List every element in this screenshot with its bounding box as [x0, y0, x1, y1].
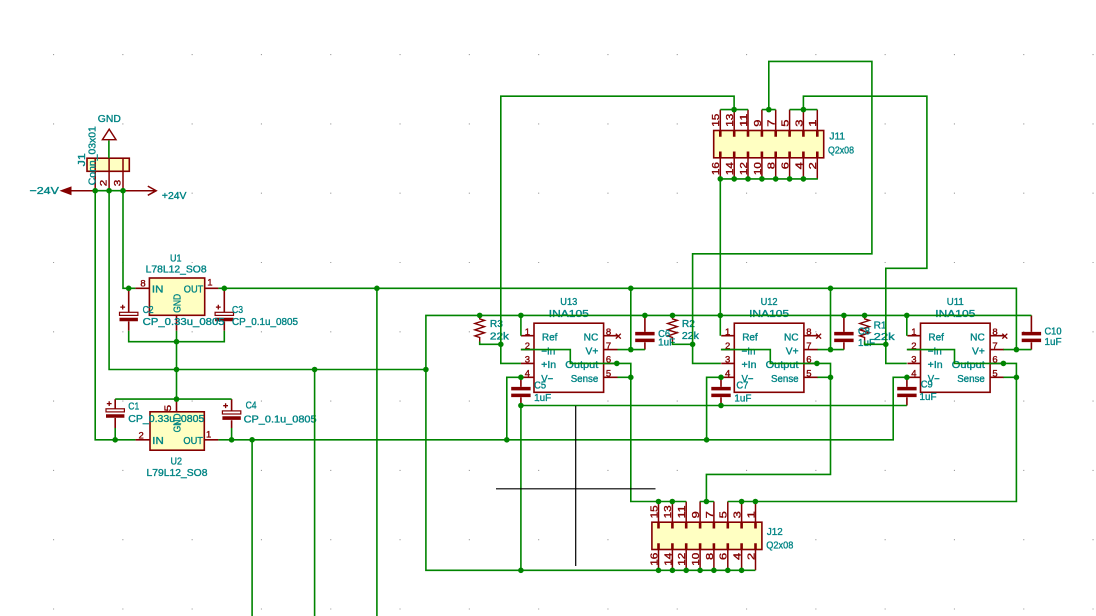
svg-text:Ref: Ref — [742, 333, 758, 344]
svg-text:+In: +In — [742, 360, 757, 371]
svg-text:U1: U1 — [170, 253, 182, 264]
svg-text:INA105: INA105 — [935, 309, 976, 320]
svg-text:10: 10 — [691, 552, 702, 566]
svg-text:7: 7 — [767, 119, 778, 127]
svg-text:C3: C3 — [232, 305, 243, 316]
svg-text:CP_0.33u_0805: CP_0.33u_0805 — [143, 317, 225, 328]
svg-text:−In: −In — [928, 346, 942, 357]
svg-text:C8: C8 — [858, 326, 870, 337]
svg-text:9: 9 — [691, 511, 702, 519]
svg-text:Sense: Sense — [957, 374, 985, 385]
svg-text:11: 11 — [739, 113, 750, 127]
svg-text:1: 1 — [911, 327, 916, 338]
svg-text:1uF: 1uF — [534, 393, 551, 404]
svg-text:15: 15 — [649, 505, 660, 519]
svg-text:CP_0.1u_0805: CP_0.1u_0805 — [232, 317, 298, 328]
svg-text:1: 1 — [525, 327, 530, 338]
svg-text:U12: U12 — [761, 297, 778, 308]
svg-text:1uF: 1uF — [1045, 337, 1062, 348]
svg-text:2: 2 — [746, 552, 757, 560]
svg-text:8: 8 — [806, 327, 811, 338]
svg-text:OUT: OUT — [183, 436, 203, 447]
svg-text:NC: NC — [584, 333, 599, 344]
svg-text:1: 1 — [206, 430, 211, 441]
svg-text:L78L12_SO8: L78L12_SO8 — [146, 264, 207, 275]
svg-text:4: 4 — [911, 368, 916, 379]
svg-text:8: 8 — [705, 552, 716, 560]
svg-text:3: 3 — [733, 511, 744, 519]
svg-text:1uF: 1uF — [920, 392, 937, 403]
svg-text:8: 8 — [140, 279, 145, 290]
svg-text:3: 3 — [911, 355, 916, 366]
svg-text:7: 7 — [806, 341, 811, 352]
svg-text:L79L12_SO8: L79L12_SO8 — [147, 468, 208, 479]
svg-text:C1: C1 — [128, 402, 139, 413]
svg-text:5: 5 — [780, 119, 791, 127]
svg-text:3: 3 — [794, 119, 805, 127]
svg-text:4: 4 — [525, 368, 530, 379]
svg-text:3: 3 — [725, 355, 730, 366]
svg-text:Ref: Ref — [928, 333, 944, 344]
svg-text:1: 1 — [725, 327, 730, 338]
svg-text:22k: 22k — [490, 331, 510, 342]
svg-text:5: 5 — [719, 511, 730, 519]
svg-text:−In: −In — [541, 346, 555, 357]
svg-text:13: 13 — [663, 505, 674, 519]
svg-text:V−: V− — [541, 374, 553, 385]
svg-text:CP_0.1u_0805: CP_0.1u_0805 — [244, 415, 317, 426]
svg-text:C4: C4 — [246, 401, 257, 412]
svg-text:INA105: INA105 — [749, 309, 790, 320]
svg-text:J1: J1 — [77, 153, 88, 167]
svg-text:6: 6 — [780, 162, 791, 170]
svg-text:2: 2 — [139, 430, 144, 441]
svg-text:5: 5 — [806, 368, 811, 379]
svg-text:15: 15 — [711, 113, 722, 127]
svg-text:Q2x08: Q2x08 — [766, 539, 793, 551]
svg-text:Sense: Sense — [771, 374, 799, 385]
svg-text:GND: GND — [98, 114, 121, 125]
svg-text:16: 16 — [711, 162, 722, 176]
svg-text:8: 8 — [992, 327, 997, 338]
svg-text:Q2x08: Q2x08 — [828, 145, 854, 157]
svg-text:J12: J12 — [767, 526, 783, 538]
svg-text:7: 7 — [606, 341, 611, 352]
svg-text:3: 3 — [113, 180, 124, 187]
svg-text:NC: NC — [784, 333, 799, 344]
svg-text:OUT: OUT — [184, 284, 204, 295]
svg-text:16: 16 — [649, 552, 660, 566]
svg-text:13: 13 — [725, 113, 736, 127]
svg-text:Conn_03x01: Conn_03x01 — [88, 126, 99, 185]
svg-text:GND: GND — [173, 294, 184, 313]
svg-text:J11: J11 — [829, 130, 845, 142]
svg-text:5: 5 — [606, 368, 611, 379]
svg-text:12: 12 — [739, 162, 750, 176]
svg-text:5: 5 — [992, 368, 997, 379]
svg-text:V−: V− — [928, 374, 940, 385]
svg-text:C2: C2 — [143, 305, 154, 316]
svg-text:8: 8 — [767, 162, 778, 170]
svg-text:22k: 22k — [682, 331, 700, 342]
svg-text:1uF: 1uF — [734, 394, 751, 405]
svg-text:C10: C10 — [1045, 327, 1062, 338]
svg-text:5: 5 — [163, 405, 174, 412]
svg-text:INA105: INA105 — [549, 309, 590, 320]
svg-text:CP_0.33u_0805: CP_0.33u_0805 — [128, 414, 204, 425]
svg-text:9: 9 — [753, 119, 764, 127]
svg-text:U13: U13 — [560, 297, 577, 308]
svg-text:IN: IN — [152, 284, 164, 295]
svg-text:−24V: −24V — [30, 186, 60, 197]
svg-text:U11: U11 — [947, 297, 964, 308]
svg-text:+In: +In — [928, 360, 943, 371]
svg-text:12: 12 — [677, 552, 688, 566]
svg-text:4: 4 — [794, 162, 805, 170]
svg-text:1: 1 — [207, 278, 212, 289]
svg-text:IN: IN — [152, 436, 164, 447]
svg-text:2: 2 — [99, 180, 110, 187]
svg-text:14: 14 — [725, 162, 736, 176]
svg-text:+24V: +24V — [162, 191, 187, 202]
svg-text:4: 4 — [733, 552, 744, 560]
svg-text:+In: +In — [541, 360, 556, 371]
svg-text:10: 10 — [753, 162, 764, 176]
svg-text:NC: NC — [970, 333, 985, 344]
svg-text:V−: V− — [742, 374, 754, 385]
svg-text:8: 8 — [606, 327, 611, 338]
svg-text:1: 1 — [746, 511, 757, 519]
svg-text:V+: V+ — [972, 346, 985, 357]
svg-text:Ref: Ref — [542, 333, 558, 344]
svg-text:11: 11 — [677, 505, 688, 519]
svg-text:2: 2 — [808, 162, 819, 170]
svg-text:7: 7 — [992, 341, 997, 352]
svg-text:6: 6 — [719, 552, 730, 560]
svg-text:1: 1 — [808, 119, 819, 127]
svg-text:14: 14 — [663, 552, 674, 566]
svg-text:−In: −In — [742, 346, 756, 357]
svg-text:Output: Output — [952, 360, 985, 371]
svg-text:Sense: Sense — [571, 374, 599, 385]
svg-text:4: 4 — [725, 368, 730, 379]
svg-text:22k: 22k — [874, 332, 896, 343]
svg-text:3: 3 — [525, 355, 530, 366]
svg-text:V+: V+ — [586, 346, 599, 357]
svg-text:7: 7 — [705, 511, 716, 519]
svg-text:V+: V+ — [786, 346, 799, 357]
svg-text:U2: U2 — [171, 456, 183, 467]
